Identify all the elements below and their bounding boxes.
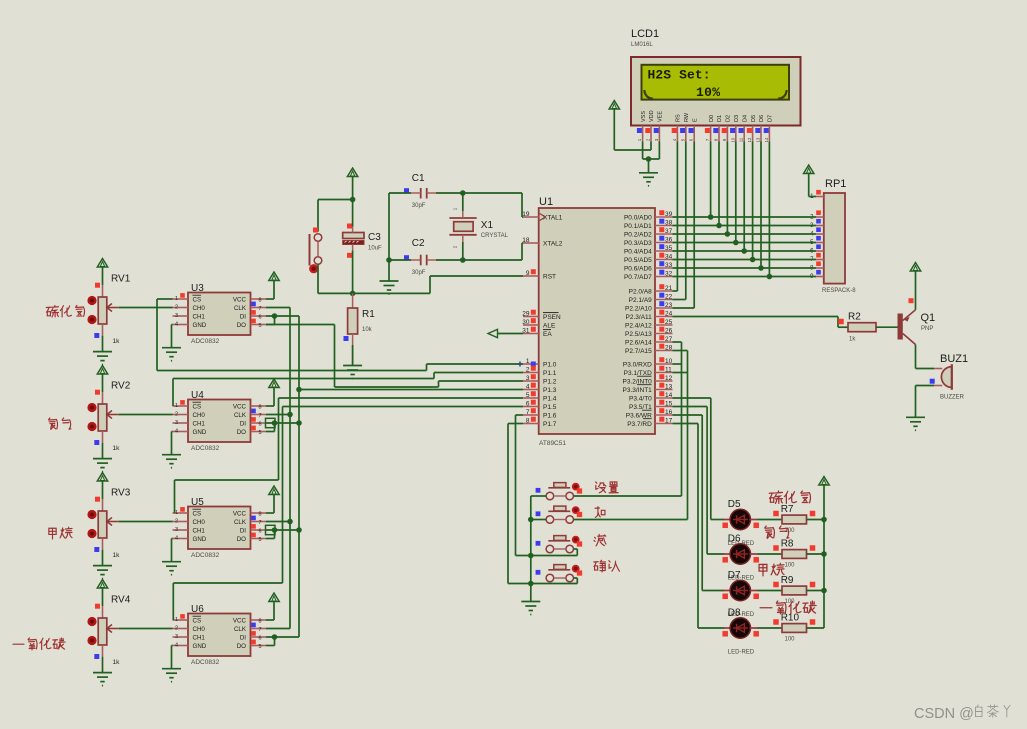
svg-text:14: 14	[764, 137, 769, 142]
U1 pin 37 P0.2/AD2	[624, 227, 673, 238]
wire U1 P3.7 to LED D8	[673, 424, 725, 629]
svg-text:P0.2/AD2: P0.2/AD2	[624, 231, 652, 238]
U1 pin 30 ALE	[522, 318, 556, 329]
svg-text:1: 1	[175, 296, 178, 302]
LCD pin D6 (pin 13)	[755, 115, 765, 142]
svg-text:H2S Set:: H2S Set:	[648, 68, 711, 83]
svg-text:15: 15	[665, 401, 673, 408]
reset button red actuator	[309, 264, 318, 273]
svg-text:DI: DI	[240, 313, 246, 320]
U1 pin 12 P3.2/INT0	[623, 374, 673, 385]
U6 pin 1 CS	[173, 614, 202, 624]
svg-text:3: 3	[175, 527, 178, 533]
U4 pin 6 DI	[240, 417, 266, 427]
svg-text:RS: RS	[676, 114, 682, 122]
svg-text:CLK: CLK	[234, 626, 247, 633]
svg-text:P1.7: P1.7	[543, 421, 557, 428]
wire U5 DI to bus	[266, 529, 299, 531]
RP1 pin 4	[810, 227, 824, 237]
svg-text:1: 1	[175, 510, 178, 516]
U3 pin 4 GND	[173, 322, 207, 329]
potentiometer RV1	[98, 274, 131, 346]
U4 pin 4 GND	[173, 429, 207, 436]
ground symbol under RV2	[93, 459, 112, 472]
svg-text:CRYSTAL: CRYSTAL	[481, 233, 509, 239]
wire LCD RS to U1 P2.0	[673, 142, 678, 292]
U6 pin 4 GND	[173, 643, 207, 650]
LCD pin VSS (pin 1)	[637, 111, 647, 142]
U1 pin 17 P3.7/RD	[627, 417, 672, 428]
transistor Q1	[898, 310, 936, 345]
LCD pin RS (pin 4)	[672, 114, 682, 141]
ground symbol under RV4	[93, 673, 112, 686]
svg-text:VCC: VCC	[233, 403, 247, 410]
D5 state squares	[722, 523, 759, 529]
wire U6 GND pin to ground	[172, 646, 173, 669]
wire R7 to power rail	[807, 519, 825, 521]
svg-text:E: E	[692, 118, 698, 122]
svg-text:P3.1/TXD: P3.1/TXD	[624, 370, 652, 377]
wire crystal node to XTAL2	[463, 243, 523, 260]
svg-text:P0.4/AD4: P0.4/AD4	[624, 248, 652, 255]
U1 EA not-connect arrow	[488, 329, 523, 337]
RV1 adjust buttons	[87, 296, 96, 324]
wire U1 P0.2 to RP1 pin 4	[673, 233, 817, 235]
wire LCD D3 vertical	[735, 142, 737, 243]
U5 pin 5 DO	[237, 533, 266, 543]
R7 state squares	[773, 511, 815, 517]
svg-text:VDD: VDD	[649, 110, 655, 122]
svg-text:Q1: Q1	[921, 312, 936, 324]
svg-text:24: 24	[665, 311, 673, 318]
OK state square	[536, 570, 541, 575]
svg-text:P2.5/A13: P2.5/A13	[625, 331, 652, 338]
Q1 emitter state square	[909, 298, 914, 303]
U4 pin 7 CLK	[234, 409, 266, 419]
svg-text:RW: RW	[684, 112, 690, 122]
wire U6 CLK to bus	[266, 628, 290, 630]
resistor R8	[781, 539, 807, 569]
LCD text line2 10%	[696, 85, 720, 100]
resistor R10	[781, 613, 807, 643]
U5 pin 7 CLK	[234, 516, 266, 526]
svg-text:8: 8	[259, 405, 262, 411]
svg-text:3: 3	[175, 420, 178, 426]
svg-text:13: 13	[756, 137, 761, 142]
wire top node to reset button	[318, 200, 353, 232]
wire SET button left	[531, 495, 546, 497]
power symbol above RV4	[97, 580, 107, 607]
svg-text:12: 12	[747, 137, 752, 142]
svg-text:11: 11	[739, 137, 744, 142]
power symbol left of LCD	[609, 101, 619, 151]
wire U6 DO tie to DI	[266, 637, 275, 646]
junction U6 DI/DO tie	[272, 634, 278, 640]
svg-text:CS: CS	[193, 296, 202, 303]
svg-text:P2.6/A14: P2.6/A14	[625, 339, 652, 346]
svg-text:P1.2: P1.2	[543, 378, 557, 385]
U4 pin 5 DO	[237, 426, 266, 436]
potentiometer RV2	[98, 381, 131, 453]
wire U3 GND pin to ground	[172, 325, 173, 348]
svg-text:8: 8	[259, 619, 262, 625]
svg-text:35: 35	[665, 245, 673, 252]
LED D7	[723, 570, 758, 618]
svg-text:10: 10	[730, 137, 735, 142]
svg-text:U1: U1	[539, 196, 553, 208]
RV2 adjust buttons	[87, 403, 96, 431]
wire U6 DI to bus	[266, 636, 299, 638]
U3 pin 3 CH1	[173, 313, 206, 320]
svg-text:GND: GND	[193, 322, 207, 329]
svg-text:18: 18	[522, 237, 530, 244]
push button ADD	[546, 506, 573, 523]
svg-text:1: 1	[175, 617, 178, 623]
wire C3 bottom to reset node	[352, 251, 354, 294]
svg-text:D6: D6	[759, 115, 765, 122]
LED D6	[723, 534, 758, 582]
svg-text:RV4: RV4	[111, 595, 131, 606]
svg-text:RV1: RV1	[111, 274, 131, 285]
wire U1 P2.7 down to ADD button net	[673, 351, 688, 520]
wire U1 P1.1 to U4 CS	[173, 373, 523, 407]
U1 pin 21 P2.0/A8	[629, 284, 673, 295]
C2 state square	[404, 255, 409, 260]
svg-text:7: 7	[259, 520, 262, 526]
svg-text:D4: D4	[742, 115, 748, 122]
LCD text line1 H2S Set:	[648, 68, 711, 83]
LCD pin D5 (pin 12)	[747, 115, 757, 142]
label button MINUS	[594, 534, 606, 545]
U1 pin 15 P3.5/T1	[629, 400, 673, 411]
wire MINUS button to U1 P1.6	[516, 415, 578, 556]
BUZ1 state square	[930, 379, 935, 384]
svg-text:D3: D3	[734, 115, 740, 122]
svg-text:P1.6: P1.6	[543, 412, 557, 419]
RV1 state squares	[94, 283, 100, 338]
svg-text:RP1: RP1	[825, 178, 846, 190]
U4 pin 1 CS	[173, 400, 202, 410]
push button SET	[546, 483, 573, 500]
LCD display LCD1 body	[631, 57, 801, 126]
reset button state square	[313, 228, 318, 233]
U1 pin 8 P1.7	[523, 417, 557, 428]
R2 state square	[838, 319, 844, 325]
wire R1 to ground	[352, 334, 354, 366]
svg-text:P0.7/AD7: P0.7/AD7	[624, 274, 652, 281]
svg-text:P0.5/AD5: P0.5/AD5	[624, 257, 652, 264]
svg-text:P2.0/A8: P2.0/A8	[629, 288, 653, 295]
svg-text:LCD1: LCD1	[631, 28, 659, 40]
capacitor C2	[411, 238, 436, 276]
wire C1 left to C2 left and ground	[389, 193, 411, 281]
svg-text:5: 5	[259, 537, 262, 543]
junction LED rail R9	[821, 588, 827, 594]
junction D1 on P0.1	[716, 223, 722, 229]
U5 pin 1 CS	[173, 507, 202, 517]
U1 pin 7 P1.6	[523, 408, 557, 419]
U1 pin 28 P2.7/A15	[625, 344, 673, 355]
svg-text:DO: DO	[237, 643, 246, 650]
wire LCD D5 vertical	[752, 142, 754, 260]
svg-text:3: 3	[175, 313, 178, 319]
wire C2 right to crystal bottom node	[436, 259, 463, 261]
svg-text:BUZZER: BUZZER	[940, 395, 965, 401]
wire U3 DO tie to DI	[266, 316, 275, 325]
buzzer BUZ1	[934, 353, 968, 401]
svg-text:27: 27	[665, 336, 673, 343]
U1 pin 31 EA	[522, 327, 552, 338]
svg-text:LM016L: LM016L	[631, 42, 653, 48]
ground symbol under U4	[162, 455, 181, 468]
junction D6 on P0.6	[758, 265, 764, 271]
svg-text:7: 7	[259, 413, 262, 419]
wire DI bus	[298, 316, 300, 637]
U1 pin 29 PSEN	[522, 310, 561, 321]
U1 pin 36 P0.3/AD3	[624, 236, 673, 247]
svg-text:P0.1/AD1: P0.1/AD1	[624, 223, 652, 230]
LCD pin D0 (pin 7)	[705, 115, 715, 142]
wire U1 P0.5 to RP1 pin 7	[673, 259, 817, 261]
RP1 pin 5	[810, 236, 824, 246]
svg-text:P2.1/A9: P2.1/A9	[629, 297, 653, 304]
ground symbol under RV1	[93, 352, 112, 365]
U4 pin 2 CH0	[173, 412, 206, 419]
wire VSS to ground net	[643, 142, 660, 160]
svg-text:BUZ1: BUZ1	[940, 353, 968, 365]
wire buzzer to ground	[916, 386, 935, 418]
svg-text:R7: R7	[781, 504, 794, 515]
wire LCD D1 vertical	[718, 142, 720, 226]
svg-text:36: 36	[665, 237, 673, 244]
D6 state squares	[722, 557, 759, 563]
svg-text:5: 5	[259, 430, 262, 436]
D8 state squares	[722, 631, 759, 637]
U6 pin 6 DI	[240, 631, 266, 641]
U4 pin 8 VCC	[233, 403, 266, 410]
svg-text:9: 9	[526, 270, 530, 277]
svg-text:CH0: CH0	[193, 305, 206, 312]
SET red actuator	[572, 483, 582, 494]
SET state square	[536, 488, 541, 493]
U1 pin 33 P0.6/AD6	[624, 261, 673, 272]
svg-text:D1: D1	[717, 115, 723, 122]
resistor R9	[781, 575, 807, 605]
power symbol above RV1	[97, 259, 107, 286]
svg-text:23: 23	[665, 302, 673, 309]
U6 pin 2 CH0	[173, 626, 206, 633]
U6 pin 3 CH1	[173, 634, 206, 641]
push button reset	[310, 234, 322, 266]
junction LCD ground node	[646, 156, 652, 162]
wire U1 P2.6 down to SET button net	[673, 342, 682, 496]
wire reset node to RST pin	[353, 276, 523, 293]
U1 pin 16 P3.6/WR	[626, 408, 673, 419]
svg-text:2: 2	[175, 412, 178, 418]
junction ground rail MINUS	[528, 553, 534, 559]
wire U1 P2.3 to R2	[673, 317, 849, 328]
svg-text:14: 14	[665, 392, 673, 399]
U5 pin 8 VCC	[233, 510, 266, 517]
wire LCD D6 vertical	[760, 142, 762, 269]
svg-text:P1.0: P1.0	[543, 361, 557, 368]
svg-text:4: 4	[175, 429, 178, 435]
svg-text:2: 2	[526, 367, 530, 374]
U1 pin 24 P2.3/A11	[626, 310, 673, 321]
resistor pack RP1	[822, 178, 856, 294]
label methane LED	[759, 563, 784, 576]
svg-text:P1.5: P1.5	[543, 404, 557, 411]
RV2 state squares	[94, 390, 100, 445]
wire U4 CLK to bus	[266, 414, 290, 416]
svg-text:1k: 1k	[113, 338, 121, 345]
svg-text:DO: DO	[237, 536, 246, 543]
svg-text:7: 7	[526, 409, 530, 416]
wire D7 to R9	[758, 590, 783, 592]
svg-text:P3.0/RXD: P3.0/RXD	[623, 361, 652, 368]
U3 pin 1 CS	[173, 293, 202, 303]
wire U3 CLK to bus	[266, 307, 290, 309]
power symbol above RP1	[804, 165, 817, 197]
wire U1 P1.5 to U6 CS	[173, 407, 523, 621]
svg-text:CLK: CLK	[234, 305, 247, 312]
ADC U4 body	[188, 390, 251, 452]
LCD pin D7 (pin 14)	[764, 115, 774, 142]
U1 pin 34 P0.5/AD5	[624, 253, 673, 264]
svg-text:D7: D7	[768, 115, 774, 122]
ground symbol under buttons	[521, 602, 540, 615]
svg-text:RV2: RV2	[111, 381, 131, 392]
svg-text:CH0: CH0	[193, 412, 206, 419]
ground symbol under C2	[380, 281, 399, 294]
svg-text:C2: C2	[412, 238, 425, 249]
svg-text:CH1: CH1	[193, 527, 206, 534]
svg-text:P0.0/AD0: P0.0/AD0	[624, 214, 652, 221]
wire LCD D2 vertical	[726, 142, 728, 235]
wire U1 P0.6 to RP1 pin 8	[673, 267, 817, 269]
svg-text:6: 6	[259, 422, 262, 428]
microcontroller U1 body	[539, 196, 655, 447]
U1 pin 4 P1.3	[523, 383, 557, 394]
RP1 pin 6	[810, 244, 824, 254]
svg-text:100: 100	[785, 563, 796, 569]
svg-text:R8: R8	[781, 539, 794, 550]
wire RV3 wiper to U5 CH0	[119, 521, 173, 523]
U1 pin 39 P0.0/AD0	[624, 210, 673, 221]
ground symbol under U3	[162, 348, 181, 361]
U3 pin 8 VCC	[233, 296, 266, 303]
power symbol above reset net	[347, 168, 357, 200]
wire U1 P3.1 tap	[673, 372, 688, 374]
label button OK	[594, 560, 620, 572]
U1 pin 19 XTAL1	[522, 211, 563, 221]
junction LED rail R7	[821, 517, 827, 523]
power symbol above RV3	[97, 473, 107, 500]
wire Q1 collector to buzzer	[916, 345, 935, 369]
power symbol above Q1	[910, 263, 920, 310]
svg-text:DO: DO	[237, 429, 246, 436]
R10 state squares	[773, 619, 815, 625]
svg-text:4: 4	[526, 384, 530, 391]
svg-text:D7: D7	[728, 570, 741, 581]
svg-text:CS: CS	[193, 403, 202, 410]
junction D7 on P0.7	[767, 274, 773, 280]
U6 pin 5 DO	[237, 640, 266, 650]
junction ground rail ADD	[528, 517, 534, 523]
wire R8 to power rail	[807, 553, 825, 555]
wire U5 CLK to bus	[266, 521, 290, 523]
U3 pin 5 DO	[237, 319, 266, 329]
svg-text:CH0: CH0	[193, 519, 206, 526]
svg-text:6: 6	[259, 529, 262, 535]
wire CLK bus	[289, 308, 291, 629]
svg-text:32: 32	[665, 271, 673, 278]
svg-text:R9: R9	[781, 575, 794, 586]
svg-text:P1.1: P1.1	[543, 370, 557, 377]
svg-text:PNP: PNP	[921, 326, 933, 332]
svg-text:3: 3	[175, 634, 178, 640]
RV4 adjust buttons	[87, 617, 96, 645]
svg-text:D0: D0	[709, 115, 715, 122]
svg-text:1k: 1k	[113, 552, 121, 559]
U1 pin 1 P1.0	[518, 358, 557, 368]
svg-text:31: 31	[522, 328, 530, 335]
svg-text:ADC0832: ADC0832	[191, 659, 220, 666]
svg-text:VCC: VCC	[233, 510, 247, 517]
U1 pin 14 P3.4/T0	[629, 391, 673, 402]
U6 pin 7 CLK	[234, 623, 266, 633]
resistor R1	[348, 293, 376, 334]
MINUS red actuator	[572, 536, 582, 547]
wire U1 P3.0 tap	[673, 363, 682, 365]
wire R9 to power rail	[807, 590, 825, 592]
svg-text:4: 4	[175, 536, 178, 542]
ground symbol under RV3	[93, 566, 112, 579]
junction U4 DI/DO tie	[272, 420, 278, 426]
wire U1 P0.0 to RP1 pin 2	[673, 216, 817, 218]
power symbol above U6 VCC	[266, 593, 279, 620]
junction U3 DI/DO tie	[272, 313, 278, 319]
svg-text:7: 7	[259, 306, 262, 312]
crystal X1	[449, 207, 508, 248]
svg-text:6: 6	[259, 315, 262, 321]
power symbol above U4 VCC	[266, 379, 279, 406]
MINUS state square	[536, 541, 541, 546]
R1 state square	[344, 336, 349, 341]
LCD pin E (pin 6)	[689, 118, 699, 142]
wire RV1 to ground	[102, 336, 104, 352]
svg-text:4: 4	[175, 322, 178, 328]
svg-text:2: 2	[175, 519, 178, 525]
U1 pin 22 P2.1/A9	[629, 293, 673, 304]
junction crystal bottom node	[460, 242, 466, 263]
svg-text:13: 13	[665, 384, 673, 391]
U1 pin 11 P3.1/TXD	[624, 366, 673, 377]
svg-text:21: 21	[665, 285, 673, 292]
label ammonia RV2	[49, 418, 71, 429]
svg-text:8: 8	[526, 418, 530, 425]
svg-text:30pF: 30pF	[412, 270, 426, 276]
label hydrogen sulfide RV1	[46, 305, 84, 316]
junction LED rail R8	[821, 551, 827, 557]
wire RV2 wiper to U4 CH0	[119, 414, 173, 416]
svg-text:1k: 1k	[113, 659, 121, 666]
U1 pin 3 P1.2	[523, 374, 557, 385]
push button OK	[546, 565, 573, 582]
wire RV3 to ground	[102, 550, 104, 566]
svg-text:XTAL1: XTAL1	[543, 214, 563, 221]
svg-text:P3.3/INT1: P3.3/INT1	[623, 387, 653, 394]
